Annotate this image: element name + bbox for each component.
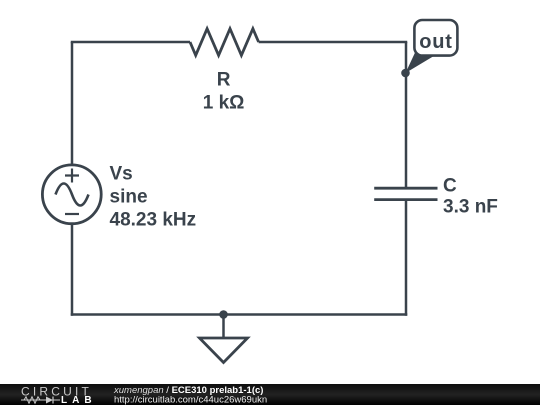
svg-text:C: C <box>443 176 457 197</box>
wire: top horizontal left of resistor <box>71 41 190 44</box>
wire: left vertical (source bottom) <box>71 224 74 316</box>
wire: left vertical (source top) <box>71 42 74 165</box>
wire: top horizontal right of resistor <box>259 41 408 44</box>
svg-text:sine: sine <box>110 187 148 208</box>
svg-text:1 kΩ: 1 kΩ <box>203 92 245 113</box>
capacitor C top plate <box>374 187 437 190</box>
wire: right vertical top (to capacitor) <box>405 42 408 188</box>
ground symbol triangle <box>200 338 248 363</box>
footer bar <box>0 384 540 405</box>
svg-text:LAB: LAB <box>61 395 97 405</box>
node out: junction dot <box>401 69 410 78</box>
resistor R1 zigzag <box>190 29 259 56</box>
voltage source plus sign <box>65 169 79 183</box>
svg-text:3.3 nF: 3.3 nF <box>443 197 498 218</box>
ground junction dot <box>219 310 228 319</box>
node out: flag tail <box>406 51 434 74</box>
node out: flag bubble <box>414 20 457 56</box>
voltage source minus sign <box>65 213 79 215</box>
footer logo resistor squiggle <box>24 397 40 403</box>
wire: ground stub <box>222 315 225 339</box>
voltage source Vs circle <box>42 165 101 224</box>
svg-text:out: out <box>419 31 453 53</box>
svg-text:48.23 kHz: 48.23 kHz <box>110 210 197 231</box>
capacitor C bottom plate <box>374 198 437 201</box>
svg-text:R: R <box>217 70 231 91</box>
svg-text:Vs: Vs <box>110 164 133 185</box>
footer logo diode <box>46 397 53 404</box>
wire: right vertical bottom (capacitor to bottom) <box>405 200 408 316</box>
voltage source sine wave <box>56 184 89 206</box>
svg-text:http://circuitlab.com/c44uc26w: http://circuitlab.com/c44uc26w69ukn <box>114 395 267 405</box>
wire: bottom horizontal <box>71 313 408 316</box>
footer logo wire <box>21 399 46 401</box>
